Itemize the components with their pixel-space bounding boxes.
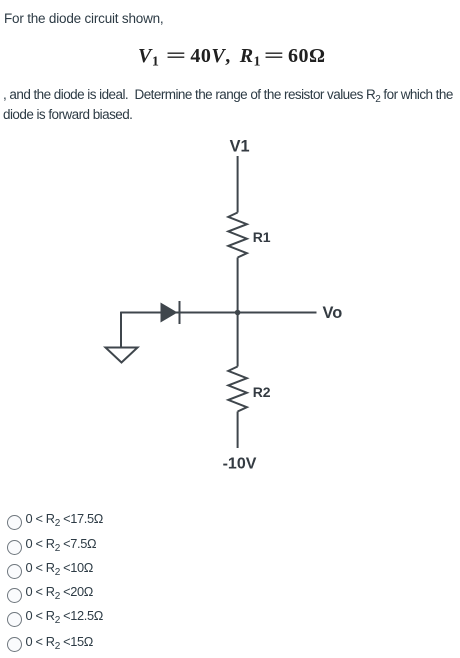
circuit schematic [0, 130, 460, 480]
svg-text:-10V: -10V [223, 456, 257, 473]
wire diode branch vertical [120, 312, 122, 348]
wire V1 to R1 [237, 156, 239, 213]
answer option 5 [7, 612, 22, 627]
answer option 2 [7, 540, 22, 555]
wire diode branch horizontal [121, 312, 238, 314]
resistor R2 [228, 367, 247, 412]
paragraph 2 [3, 85, 453, 123]
svg-text:V1: V1 [230, 137, 250, 155]
svg-text:R2: R2 [253, 384, 271, 400]
wire R2 to -10V [237, 412, 239, 449]
answer option 4 [7, 588, 22, 603]
formula V1 = 40V, R1 = 60 Ohm [138, 44, 326, 68]
ground [106, 348, 138, 363]
wire node to R2 [237, 313, 239, 367]
resistor R1 [228, 213, 247, 258]
wire R1 to node [237, 258, 239, 313]
answer option 3 [7, 564, 22, 579]
answer option 1 [7, 515, 22, 530]
answer option 6 [7, 637, 22, 652]
svg-text:R1: R1 [253, 229, 271, 245]
paragraph 1 [4, 10, 163, 27]
diode D1 [161, 301, 180, 324]
svg-text:Vo: Vo [323, 304, 343, 322]
wire node to Vo [238, 312, 317, 314]
node junction dot [235, 310, 241, 316]
